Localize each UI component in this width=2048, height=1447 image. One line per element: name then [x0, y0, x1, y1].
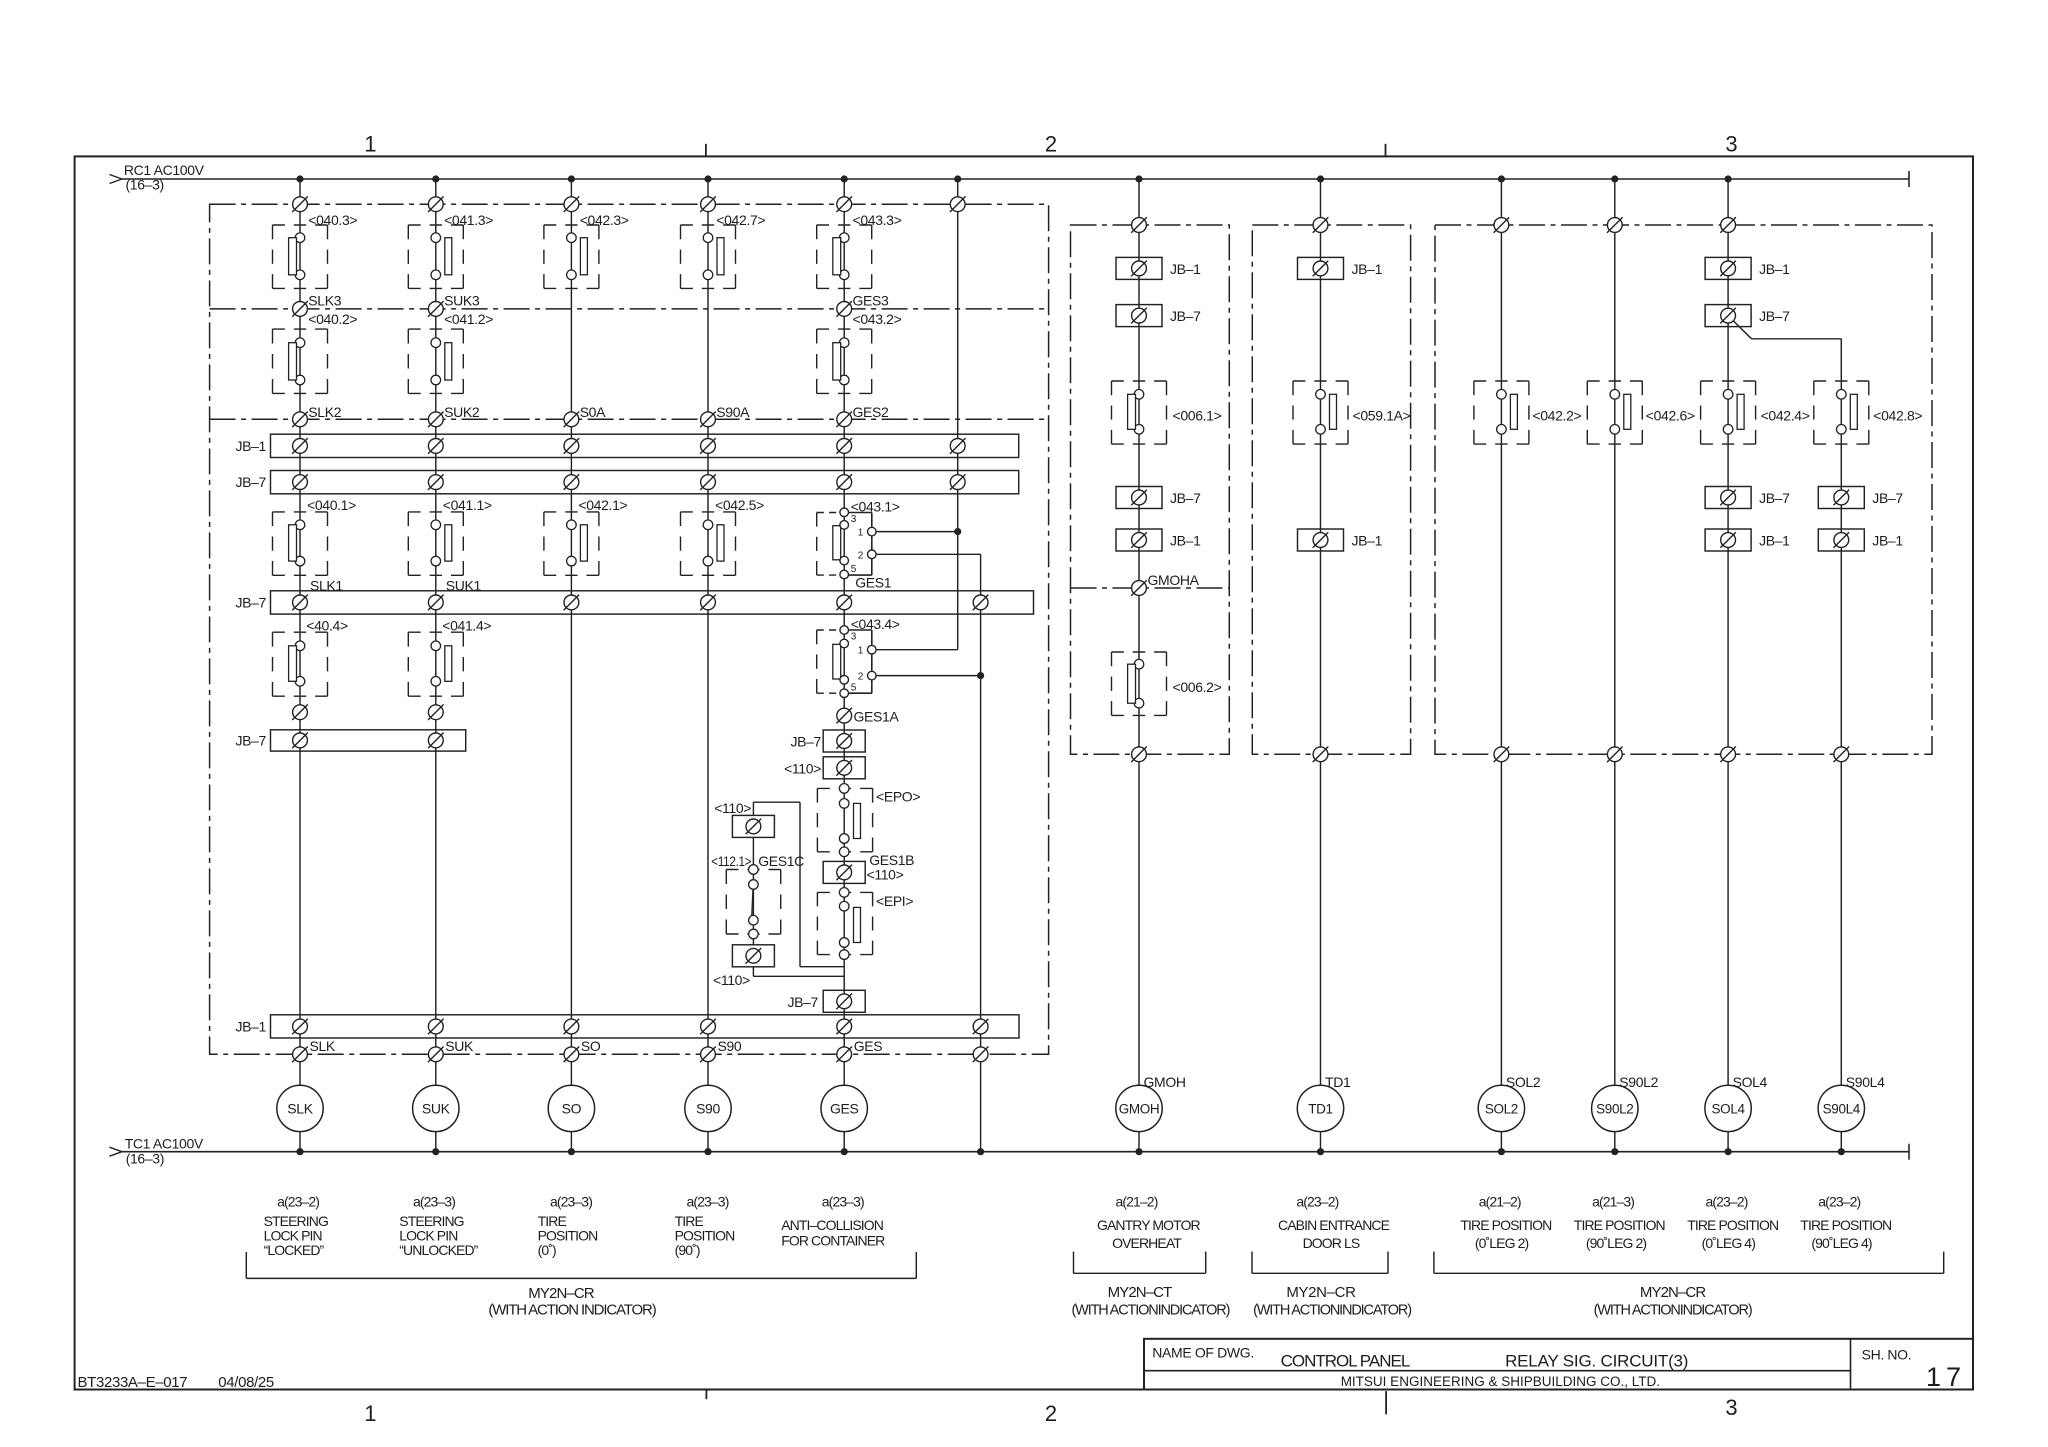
- wire column SLK: [299, 179, 301, 1152]
- GMOH group box: [1071, 225, 1230, 754]
- label <040.2>: [308, 311, 357, 327]
- junction right box top: [1494, 217, 1510, 233]
- svg-text:MY2N–CR: MY2N–CR: [1286, 1284, 1356, 1301]
- node TC1 taps: [297, 1149, 1845, 1155]
- svg-text:JB–1: JB–1: [1872, 533, 1903, 549]
- wire GES1C bypass: [800, 802, 844, 967]
- svg-text:BT3233A–E–017: BT3233A–E–017: [78, 1374, 188, 1391]
- label GES1B: [869, 852, 914, 868]
- junction box JB-7 S90L4: [1818, 487, 1864, 509]
- label <042.6>: [1646, 407, 1695, 423]
- bracket MY2N-CR SOL: [1434, 1252, 1944, 1274]
- relay coil SUK: [413, 1085, 459, 1131]
- svg-text:(16–3): (16–3): [126, 177, 164, 193]
- relay contact SUK3 contact <041.3>: [408, 225, 463, 288]
- label GES2: [853, 404, 890, 420]
- terminal JB-7 upper: [700, 474, 716, 490]
- terminal JB-7 upper: [428, 474, 444, 490]
- relay contact SLK row4 <40.4>: [273, 632, 328, 696]
- relay contact S90A contact <042.7>: [681, 225, 736, 288]
- junction box JB-1 SOL4: [1705, 257, 1751, 279]
- wire GES1C branch bottom: [753, 967, 844, 977]
- junction box <110> GES1C bottom: [732, 945, 774, 967]
- svg-text:MITSUI ENGINEERING & SHIPBUILD: MITSUI ENGINEERING & SHIPBUILDING CO., L…: [1341, 1374, 1660, 1389]
- label <110> GES: [784, 760, 821, 776]
- junction <043.3> top row: [836, 196, 852, 212]
- terminal JB-7 upper: [292, 474, 308, 490]
- column number 3 bottom: [1725, 1395, 1737, 1420]
- svg-text:SO: SO: [581, 1038, 601, 1054]
- label <043.1>: [851, 499, 900, 515]
- svg-text:JB–1: JB–1: [1170, 261, 1201, 277]
- column number 2 bottom: [1045, 1401, 1057, 1426]
- label JB-1 S90L4: [1872, 533, 1903, 549]
- junction box JB-7 SOL4 lower: [1705, 487, 1751, 509]
- svg-text:<112.1>: <112.1>: [711, 853, 751, 869]
- relay contact GMOH <006.1>: [1112, 381, 1167, 444]
- wire GES1 pin2 to aux: [872, 553, 981, 555]
- svg-text:<EPI>: <EPI>: [876, 893, 913, 909]
- junction box JB-1 GMOH lower: [1116, 529, 1162, 551]
- label JB-7 short: [235, 732, 266, 748]
- svg-text:JB–7: JB–7: [1759, 490, 1790, 506]
- label <041.3>: [444, 212, 493, 228]
- junction GES3: [836, 301, 852, 317]
- svg-text:JB–1: JB–1: [1352, 261, 1383, 277]
- label GMOHA: [1148, 572, 1200, 588]
- svg-text:a(23–3): a(23–3): [413, 1194, 455, 1210]
- svg-text:(16–3): (16–3): [126, 1151, 164, 1167]
- terminal JB-7 middle: [428, 595, 444, 611]
- label MY2N-CR TD1: [1286, 1284, 1356, 1301]
- svg-text:JB–7: JB–7: [787, 994, 818, 1010]
- junction right box bottom: [1607, 747, 1623, 763]
- terminal JB-7 middle: [836, 595, 852, 611]
- svg-text:2: 2: [1045, 1401, 1057, 1426]
- relay coil SLK: [277, 1085, 323, 1131]
- svg-text:SLK: SLK: [310, 1038, 336, 1054]
- label RC1 AC100V: [124, 162, 205, 178]
- label <40.4>: [306, 618, 348, 634]
- svg-text:(90˚LEG 4): (90˚LEG 4): [1811, 1235, 1871, 1251]
- junction box JB-1 SOL4 lower: [1705, 529, 1751, 551]
- terminal JB-1 upper: [564, 438, 580, 454]
- label MY2N-CR SOL: [1640, 1284, 1706, 1301]
- terminal JB-7 short: [292, 733, 308, 749]
- label JB-1 SOL4: [1759, 261, 1790, 277]
- junction <040.3> top row: [292, 196, 308, 212]
- svg-text:(0˚LEG 4): (0˚LEG 4): [1702, 1235, 1756, 1251]
- svg-text:<110>: <110>: [714, 800, 751, 816]
- SOL group box: [1435, 225, 1932, 754]
- bus TC1 AC100V: [110, 1144, 1910, 1160]
- junction right box bottom: [1720, 747, 1736, 763]
- label JB-1 upper: [235, 438, 266, 454]
- left box divider row3: [210, 418, 1049, 420]
- junction SLK2: [292, 412, 308, 428]
- description TIRE POSITION 90 LEG2: [1574, 1217, 1665, 1251]
- svg-text:CONTROL PANEL: CONTROL PANEL: [1281, 1352, 1410, 1371]
- svg-text:MY2N–CT: MY2N–CT: [1108, 1284, 1172, 1301]
- svg-text:a(21–3): a(21–3): [1592, 1194, 1634, 1210]
- wire aux column lower: [980, 554, 982, 1151]
- svg-text:(WITH ACTION INDICATOR): (WITH ACTION INDICATOR): [488, 1302, 656, 1319]
- svg-text:JB–1: JB–1: [1759, 261, 1790, 277]
- label WITH ACTIONINDICATOR GMOH: [1071, 1303, 1229, 1319]
- wire column S90L2: [1614, 179, 1616, 1152]
- svg-text:JB–1: JB–1: [1170, 533, 1201, 549]
- label <042.2>: [1532, 407, 1581, 423]
- label SLK2: [308, 404, 341, 420]
- junction right box bottom: [1834, 747, 1850, 763]
- junction right box bottom: [1494, 747, 1510, 763]
- svg-text:GES1: GES1: [855, 574, 892, 590]
- label bottom SUK: [445, 1038, 474, 1054]
- wire aux column upper: [957, 179, 959, 650]
- description TIRE POSITION 0 LEG2: [1460, 1217, 1551, 1251]
- description GANTRY MOTOR OVERHEAT: [1097, 1217, 1201, 1251]
- label SLK3: [308, 293, 341, 309]
- svg-text:SOL2: SOL2: [1485, 1101, 1518, 1116]
- junction S90A: [700, 412, 716, 428]
- terminal JB-7 upper: [836, 474, 852, 490]
- svg-text:1: 1: [364, 132, 376, 157]
- svg-text:3: 3: [1725, 132, 1737, 157]
- wire GES1C branch column: [752, 837, 754, 945]
- column number 2 top: [1045, 132, 1057, 157]
- label SUK1: [446, 577, 482, 593]
- svg-text:a(23–2): a(23–2): [1818, 1194, 1860, 1210]
- svg-text:(WITH ACTIONINDICATOR): (WITH ACTIONINDICATOR): [1071, 1303, 1229, 1319]
- relay contact GES1 <043.1>: [817, 508, 876, 579]
- label MITSUI: [1341, 1374, 1660, 1389]
- junction bottom S90: [700, 1047, 716, 1063]
- label <112.1>: [711, 853, 751, 869]
- svg-text:TIRE POSITION: TIRE POSITION: [1687, 1217, 1778, 1233]
- svg-text:SUK3: SUK3: [444, 293, 480, 309]
- relay contact S90 contact <042.5>: [681, 512, 736, 575]
- label <041.1>: [443, 497, 492, 513]
- svg-text:a(21–2): a(21–2): [1479, 1194, 1521, 1210]
- svg-text:<042.6>: <042.6>: [1646, 407, 1695, 423]
- label <059.1A>: [1353, 407, 1411, 423]
- relay coil GMOH: [1116, 1085, 1162, 1131]
- label <006.2>: [1173, 679, 1222, 695]
- svg-text:<041.4>: <041.4>: [442, 618, 491, 634]
- terminal JB-7 middle: [292, 595, 308, 611]
- svg-text:GES1C: GES1C: [758, 853, 804, 869]
- svg-text:JB–7: JB–7: [1872, 490, 1903, 506]
- junction aux top row: [950, 196, 966, 212]
- label a(23–2) at x=1728.1: [1706, 1194, 1748, 1210]
- svg-text:SUK: SUK: [445, 1038, 474, 1054]
- svg-text:GES: GES: [854, 1038, 883, 1054]
- label SH NO: [1862, 1347, 1912, 1363]
- svg-text:<059.1A>: <059.1A>: [1353, 407, 1411, 423]
- label SLK1: [310, 577, 343, 593]
- svg-text:S90: S90: [718, 1038, 742, 1054]
- label NAME OF DWG: [1152, 1345, 1254, 1361]
- svg-text:<40.4>: <40.4>: [306, 618, 348, 634]
- terminal JB-1 lower: [973, 1019, 989, 1035]
- label a(21–2) at x=1139: [1116, 1194, 1158, 1210]
- svg-text:JB–7: JB–7: [235, 732, 266, 748]
- svg-text:a(23–3): a(23–3): [550, 1194, 592, 1210]
- label a(21–2) at x=1501.4: [1479, 1194, 1521, 1210]
- relay coil S90L2: [1592, 1085, 1638, 1131]
- bottom edge tick left: [705, 1390, 707, 1400]
- svg-text:(0˚LEG 2): (0˚LEG 2): [1475, 1235, 1529, 1251]
- terminal JB-7 upper: [950, 474, 966, 490]
- relay contact GMOH <006.2>: [1112, 652, 1167, 715]
- relay contact SUK2 contact <041.2>: [408, 329, 463, 393]
- junction box JB-7 GES: [823, 730, 865, 752]
- border frame: [75, 156, 1973, 1389]
- title block divider horizontal: [1144, 1370, 1851, 1372]
- svg-text:a(23–2): a(23–2): [277, 1194, 319, 1210]
- label GES1A: [854, 709, 900, 725]
- label GES3: [853, 293, 890, 309]
- svg-text:ANTI–COLLISION: ANTI–COLLISION: [781, 1217, 883, 1233]
- terminal JB-1 lower: [292, 1019, 308, 1035]
- junction box <110> GES: [823, 757, 865, 779]
- label WITH ACTION INDICATOR left: [488, 1302, 656, 1319]
- svg-text:<110>: <110>: [713, 972, 750, 988]
- junction box JB-1 S90L4: [1818, 529, 1864, 551]
- junction SLK row4: [292, 704, 308, 720]
- label a(23–3) at x=435.8: [413, 1194, 455, 1210]
- label JB-1 GMOH: [1170, 261, 1201, 277]
- wire column GES: [843, 179, 845, 1152]
- svg-text:(90˚LEG 2): (90˚LEG 2): [1586, 1235, 1646, 1251]
- node RC1 taps: [297, 176, 1731, 182]
- label JB-1 lower: [235, 1019, 266, 1035]
- junction box JB-7 GMOH: [1116, 305, 1162, 327]
- description at x=435.8: [399, 1213, 478, 1258]
- wire column SOL2: [1500, 179, 1502, 1152]
- label bottom SO: [581, 1038, 601, 1054]
- relay contact GES3 contact <043.3>: [817, 225, 872, 288]
- terminal JB-7 middle: [700, 595, 716, 611]
- terminal JB-1 upper: [950, 438, 966, 454]
- label <EPI>: [876, 893, 913, 909]
- description at x=844.2: [781, 1217, 885, 1249]
- label bottom GES: [854, 1038, 883, 1054]
- column number 3 top: [1725, 132, 1737, 157]
- svg-text:SLK: SLK: [287, 1100, 313, 1116]
- junction box <110> GES1C top: [732, 815, 774, 837]
- svg-text:GES1A: GES1A: [854, 709, 900, 725]
- svg-text:<110>: <110>: [867, 866, 904, 882]
- wire GES1C branch top: [753, 802, 800, 815]
- junction box JB-7 GMOH lower: [1116, 487, 1162, 509]
- svg-text:GANTRY MOTOR: GANTRY MOTOR: [1097, 1217, 1201, 1233]
- svg-text:GMOH: GMOH: [1119, 1101, 1160, 1116]
- svg-text:TC1 AC100V: TC1 AC100V: [125, 1136, 204, 1152]
- svg-text:2: 2: [858, 672, 864, 683]
- svg-text:GES2: GES2: [853, 404, 890, 420]
- label TC1 (16-3): [126, 1151, 164, 1167]
- left box divider row2: [210, 308, 1049, 310]
- svg-text:S90L2: S90L2: [1596, 1101, 1633, 1116]
- svg-text:1: 1: [858, 646, 864, 657]
- relay contact GES1A <043.4>: [817, 626, 876, 698]
- label date: [218, 1374, 274, 1391]
- bottom edge tick right: [1385, 1391, 1387, 1414]
- junction SLK3: [292, 301, 308, 317]
- label <110> GES1C top: [714, 800, 751, 816]
- junction box JB-7 SOL4: [1705, 305, 1751, 327]
- relay coil S90L4: [1818, 1085, 1864, 1131]
- label SUK3: [444, 293, 480, 309]
- label <042.8>: [1873, 407, 1922, 423]
- label a(21–3) at x=1614.8: [1592, 1194, 1634, 1210]
- svg-text:(90˚): (90˚): [675, 1242, 700, 1258]
- relay coil SOL2: [1478, 1085, 1524, 1131]
- svg-text:<042.1>: <042.1>: [578, 497, 627, 513]
- label <042.1>: [578, 497, 627, 513]
- svg-text:<006.2>: <006.2>: [1173, 679, 1222, 695]
- svg-text:JB–1: JB–1: [235, 438, 266, 454]
- svg-text:SUK: SUK: [422, 1100, 451, 1116]
- column number 1 top: [364, 132, 376, 157]
- svg-text:GMOHA: GMOHA: [1148, 572, 1200, 588]
- label coil TD1: [1325, 1074, 1351, 1090]
- wire column SUK: [435, 179, 437, 1152]
- label JB-7 GES: [790, 734, 821, 750]
- top edge tick left: [705, 144, 707, 157]
- terminal strip JB-1 upper: [271, 434, 1019, 457]
- junction box JB-1 TD1: [1298, 257, 1344, 279]
- svg-text:JB–1: JB–1: [1759, 533, 1790, 549]
- label <042.5>: [715, 497, 764, 513]
- terminal JB-1 upper: [836, 438, 852, 454]
- relay coil S90: [685, 1085, 731, 1131]
- svg-text:SUK1: SUK1: [446, 577, 482, 593]
- label <042.7>: [716, 212, 765, 228]
- svg-text:JB–7: JB–7: [235, 474, 266, 490]
- label RELAY SIG CIRCUIT: [1505, 1352, 1688, 1371]
- terminal JB-7 short: [428, 733, 444, 749]
- terminal JB-1 upper: [700, 438, 716, 454]
- label JB-7 upper: [235, 474, 266, 490]
- wire column S90: [707, 179, 709, 1152]
- label coil SOL2: [1506, 1074, 1541, 1090]
- label JB-7 GMOH lower: [1170, 490, 1201, 506]
- bracket MY2N-CR TD1: [1252, 1252, 1388, 1274]
- svg-text:S0A: S0A: [580, 404, 606, 420]
- junction right box top: [1313, 217, 1329, 233]
- label bottom S90: [718, 1038, 742, 1054]
- terminal JB-1 upper: [428, 438, 444, 454]
- svg-text:SLK3: SLK3: [308, 293, 341, 309]
- junction box JB-1 TD1 lower: [1298, 529, 1344, 551]
- junction SUK row4: [428, 704, 444, 720]
- relay contact SOL2 <042.2>: [1474, 381, 1529, 444]
- label <041.2>: [444, 311, 493, 327]
- relay contact GES2 contact <043.2>: [817, 329, 872, 393]
- title block divider vertical: [1850, 1339, 1852, 1390]
- svg-text:a(23–2): a(23–2): [1706, 1194, 1748, 1210]
- label a(23–3) at x=708: [687, 1194, 729, 1210]
- junction bottom GES: [836, 1047, 852, 1063]
- contact EPO: [817, 784, 872, 857]
- GMOH group divider GMOHA: [1071, 587, 1230, 589]
- label WITH ACTIONINDICATOR SOL: [1594, 1303, 1752, 1319]
- bus RC1 AC100V: [110, 171, 1910, 187]
- description at x=300: [264, 1213, 328, 1258]
- svg-text:RELAY SIG. CIRCUIT(3): RELAY SIG. CIRCUIT(3): [1505, 1352, 1688, 1371]
- label MY2N-CR left: [528, 1285, 594, 1302]
- svg-text:DOOR LS: DOOR LS: [1303, 1235, 1360, 1251]
- svg-text:<110>: <110>: [784, 760, 821, 776]
- junction GMOHA: [1131, 580, 1147, 596]
- contact GES1C: [726, 865, 780, 939]
- label MY2N-CT: [1108, 1284, 1172, 1301]
- svg-text:1: 1: [858, 528, 864, 539]
- relay contact SUK1 contact <041.1>: [408, 512, 463, 575]
- wire column GMOH: [1138, 179, 1140, 1152]
- bracket MY2N-CT GMOH: [1074, 1252, 1206, 1274]
- label JB-1 TD1 lower: [1352, 533, 1383, 549]
- label <040.1>: [307, 497, 356, 513]
- label JB-7 SOL4 lower: [1759, 490, 1790, 506]
- label JB-7 S90L4: [1872, 490, 1903, 506]
- svg-text:MY2N–CR: MY2N–CR: [1640, 1284, 1706, 1301]
- junction bottom SO: [564, 1047, 580, 1063]
- svg-text:TIRE POSITION: TIRE POSITION: [1800, 1217, 1891, 1233]
- relay contact S0A contact <042.3>: [544, 225, 599, 288]
- svg-text:OVERHEAT: OVERHEAT: [1112, 1235, 1182, 1251]
- junction right box top: [1131, 217, 1147, 233]
- svg-text:SH. NO.: SH. NO.: [1862, 1347, 1912, 1363]
- svg-text:<042.5>: <042.5>: [715, 497, 764, 513]
- relay contact SUK row4 <041.4>: [408, 632, 463, 696]
- label sheet number 17: [1926, 1362, 1966, 1392]
- svg-text:GES3: GES3: [853, 293, 890, 309]
- description TIRE POSITION 90 LEG4: [1800, 1217, 1891, 1251]
- terminal JB-7 upper: [564, 474, 580, 490]
- junction <042.7> top row: [700, 196, 716, 212]
- wire column SOL4: [1727, 179, 1729, 1152]
- svg-text:“UNLOCKED”: “UNLOCKED”: [399, 1242, 478, 1258]
- label JB-1 SOL4 lower: [1759, 533, 1790, 549]
- svg-text:JB–7: JB–7: [235, 594, 266, 610]
- label CONTROL PANEL: [1281, 1352, 1410, 1371]
- description TIRE POSITION 0 LEG4: [1687, 1217, 1778, 1251]
- svg-text:(WITH ACTIONINDICATOR): (WITH ACTIONINDICATOR): [1253, 1303, 1411, 1319]
- label JB-1 GMOH lower: [1170, 533, 1201, 549]
- label <043.2>: [853, 311, 902, 327]
- svg-text:<EPO>: <EPO>: [876, 789, 920, 805]
- relay contact TD1 <059.1A>: [1293, 381, 1348, 444]
- left relay group box: [210, 204, 1049, 1054]
- junction bottom aux: [973, 1047, 989, 1063]
- svg-text:SUK2: SUK2: [444, 404, 480, 420]
- svg-text:17: 17: [1926, 1362, 1966, 1392]
- label drawing number: [78, 1374, 188, 1391]
- terminal JB-1 lower: [564, 1019, 580, 1035]
- svg-text:TD1: TD1: [1308, 1101, 1332, 1116]
- svg-text:TIRE POSITION: TIRE POSITION: [1574, 1217, 1665, 1233]
- terminal JB-1 lower: [428, 1019, 444, 1035]
- svg-text:3: 3: [851, 514, 857, 525]
- label <110> GES1C bottom: [713, 972, 750, 988]
- relay coil TD1: [1297, 1085, 1343, 1131]
- svg-text:<040.2>: <040.2>: [308, 311, 357, 327]
- relay coil SO: [548, 1085, 594, 1131]
- relay contact S0 contact <042.1>: [544, 512, 599, 575]
